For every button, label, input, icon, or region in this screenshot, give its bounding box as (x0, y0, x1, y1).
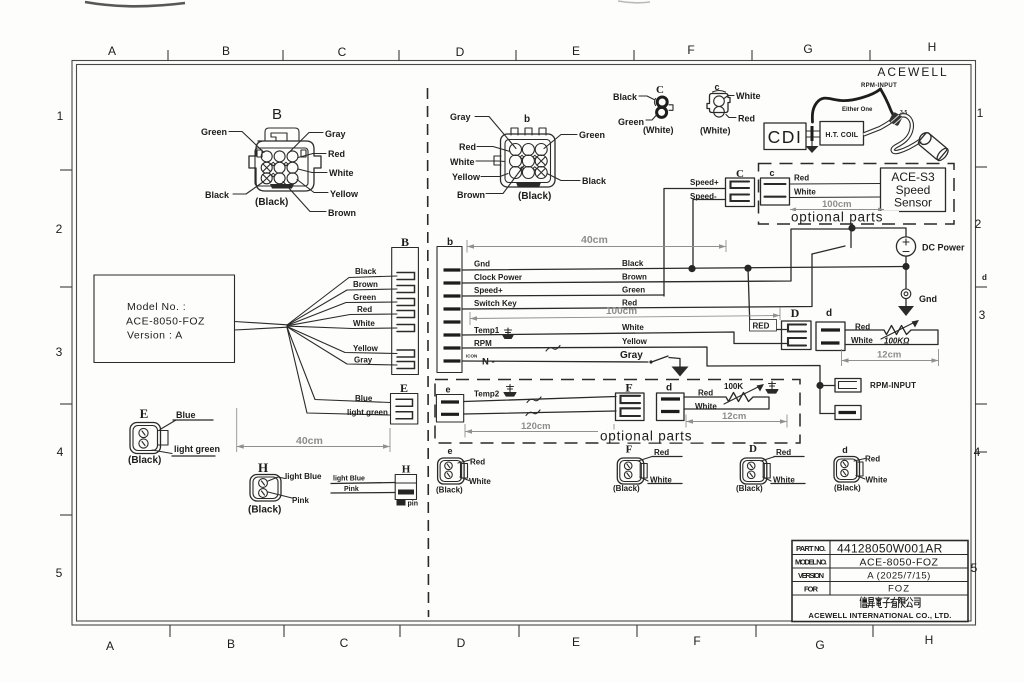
connector F (temp2 panel side) (616, 381, 645, 421)
dimension 40cm (top, harness) (467, 234, 726, 253)
svg-text:Green: Green (579, 130, 605, 140)
svg-text:Red: Red (865, 455, 880, 464)
svg-text:12cm: 12cm (722, 411, 746, 422)
svg-text:White: White (866, 476, 888, 485)
svg-text:White: White (469, 477, 491, 486)
temp1 sensor icon (503, 328, 513, 339)
d plug (Black) bottom row (834, 445, 888, 493)
dimension 100cm (sensor cable) (790, 199, 884, 212)
svg-text:100K: 100K (724, 382, 743, 391)
svg-text:Green: Green (353, 293, 376, 302)
company name CJK 億昇電子有限公司 (860, 597, 920, 608)
svg-text:Red: Red (654, 448, 669, 457)
svg-text:3: 3 (56, 345, 63, 359)
svg-text:ACEWELL INTERNATIONAL CO., LTD: ACEWELL INTERNATIONAL CO., LTD. (808, 611, 951, 620)
connector b (8-pin plug face, top-middle) (494, 114, 555, 188)
svg-text:Red: Red (776, 448, 791, 457)
svg-text:Green: Green (618, 117, 644, 127)
svg-text:MODEL NO.: MODEL NO. (795, 558, 827, 567)
svg-text:Gray: Gray (325, 129, 346, 139)
CDI unit (764, 123, 806, 150)
optional parts label (lower) (598, 429, 708, 444)
svg-text:2: 2 (975, 217, 982, 231)
optional parts box (temp2/oil) (435, 380, 800, 444)
svg-text:d: d (666, 383, 672, 394)
svg-text:E: E (140, 406, 149, 421)
svg-text:White: White (450, 157, 475, 167)
svg-text:Yellow: Yellow (452, 172, 481, 182)
svg-text:100KΩ: 100KΩ (884, 337, 910, 346)
H harness wires (331, 476, 395, 494)
F plug (Black) bottom row (613, 444, 682, 494)
svg-text:G: G (815, 638, 824, 652)
svg-text:E: E (400, 381, 408, 395)
svg-text:Gnd: Gnd (919, 294, 937, 304)
svg-text:Gray: Gray (620, 350, 643, 361)
wire Gnd/Black row (462, 259, 906, 270)
svg-text:40cm: 40cm (296, 435, 323, 447)
squiggle break on RPM wire (546, 346, 560, 352)
svg-text:Brown: Brown (328, 208, 356, 218)
svg-text:H.T. COIL: H.T. COIL (825, 132, 858, 139)
connector C (2-pin round plug, male) (613, 84, 674, 135)
svg-text:Black: Black (613, 92, 638, 102)
svg-text:(Black): (Black) (255, 197, 288, 208)
svg-text:4: 4 (974, 445, 981, 459)
svg-text:Gray: Gray (354, 356, 373, 365)
svg-text:d: d (826, 308, 832, 319)
svg-text:1: 1 (977, 106, 984, 120)
svg-text:B: B (222, 44, 230, 58)
connector b pin circles (510, 144, 548, 179)
svg-text:Red: Red (470, 458, 485, 467)
svg-text:ACEWELL: ACEWELL (877, 65, 948, 79)
RPM pickup wire (either-one branches) (812, 89, 907, 122)
svg-text:CDI: CDI (768, 127, 803, 147)
wire Speed+/Green row (462, 286, 664, 297)
ignition coil U: H.T. COIL (820, 122, 864, 146)
svg-text:D: D (749, 443, 757, 455)
connector b wire labels + leaders (450, 112, 607, 202)
dimension 100cm (main cable) (470, 306, 780, 325)
spark plug (917, 130, 950, 162)
svg-text:4: 4 (57, 445, 64, 459)
svg-text:ACE-S3: ACE-S3 (891, 170, 935, 184)
svg-text:E: E (572, 44, 580, 58)
svg-text:Pink: Pink (292, 496, 309, 505)
E plug wires Blue / light green (152, 410, 220, 456)
svg-text:light green: light green (174, 444, 220, 454)
svg-text:Temp1: Temp1 (474, 326, 500, 335)
wrap coil mark (3-5 turns) (889, 112, 903, 127)
svg-text:optional parts: optional parts (600, 429, 692, 444)
svg-text:F: F (693, 634, 700, 648)
svg-text:G: G (803, 42, 812, 56)
svg-text:Black: Black (582, 176, 607, 186)
svg-text:E: E (572, 635, 580, 649)
connector c (2-pin round plug, female) (700, 82, 761, 136)
temp2 label + oil icon (474, 385, 516, 399)
svg-text:Either One: Either One (842, 107, 873, 113)
svg-text:A (2025/7/15): A (2025/7/15) (867, 571, 931, 582)
ground (DC) (898, 299, 914, 316)
title block row MODEL NO (795, 557, 939, 569)
svg-text:(White): (White) (700, 126, 731, 136)
svg-text:White: White (736, 91, 761, 101)
svg-text:RPM: RPM (474, 339, 492, 348)
junction dot (switch to DC+) (848, 224, 855, 231)
svg-text:A: A (106, 639, 114, 653)
ground (CDI) (806, 141, 819, 153)
svg-text:Yellow: Yellow (622, 337, 648, 346)
connector strip B (392, 235, 419, 375)
svg-text:B: B (401, 235, 409, 249)
temp1 sender 100KΩ (845, 320, 938, 346)
spark plug wire (double line with wrap) (864, 115, 921, 152)
title block table (792, 541, 968, 622)
signal labels on strip b (474, 260, 522, 349)
svg-text:ACE-8050-FOZ: ACE-8050-FOZ (860, 557, 939, 569)
wire Switch Key/Red row (462, 254, 812, 309)
connector strip H (395, 464, 418, 508)
svg-text:light Blue: light Blue (285, 472, 322, 481)
svg-text:Pink: Pink (344, 486, 359, 493)
svg-text:2: 2 (56, 222, 63, 236)
svg-text:Gray: Gray (450, 112, 471, 122)
dimension 40cm (E cable) (237, 408, 390, 452)
svg-text:D: D (456, 45, 465, 59)
svg-text:Red: Red (794, 174, 809, 183)
svg-text:Red: Red (328, 149, 345, 159)
optional parts box (speed sensor) (759, 164, 955, 225)
DC power source (896, 237, 965, 256)
svg-text:C: C (338, 45, 347, 59)
junction dot (Speed- to Gnd) (688, 265, 695, 272)
svg-text:D: D (791, 306, 800, 320)
title block row PART NO (796, 542, 943, 556)
svg-text:H: H (928, 40, 937, 54)
fan-out wires to connector strip E (287, 327, 391, 415)
svg-text:Red: Red (459, 142, 476, 152)
svg-text:light Blue: light Blue (333, 476, 365, 483)
svg-text:F: F (626, 444, 633, 456)
connector B (8-pin plug face, top-left) (249, 106, 321, 191)
speed wires Speed+/Speed- (664, 178, 726, 296)
svg-text:Blue: Blue (176, 410, 196, 420)
squiggle break on temp2 B (526, 410, 540, 416)
svg-text:Switch Key: Switch Key (474, 299, 517, 308)
svg-text:Red: Red (698, 389, 713, 398)
svg-text:optional parts: optional parts (791, 210, 883, 225)
svg-text:RPM-INPUT: RPM-INPUT (861, 83, 897, 89)
svg-text:Black: Black (355, 267, 377, 276)
svg-text:3: 3 (979, 308, 986, 322)
svg-text:Yellow: Yellow (353, 344, 379, 353)
wire N-/Gray row (462, 350, 648, 362)
wire temp2 B (464, 411, 616, 414)
connector D (temp1 panel side) (782, 306, 812, 350)
svg-text:100cm: 100cm (606, 306, 637, 317)
junction dot (RPM input) (816, 382, 823, 389)
E plug (Black) bottom-left (128, 406, 168, 466)
connector d (temp1 sensor side) (816, 308, 845, 351)
svg-text:c: c (769, 168, 774, 178)
svg-text:FOZ: FOZ (888, 584, 910, 595)
wire DC minus to ground (905, 256, 907, 289)
svg-text:White: White (622, 323, 644, 332)
svg-text:Gnd: Gnd (474, 260, 490, 269)
connector c (speed, sensor side) (761, 168, 790, 205)
svg-text:RPM-INPUT: RPM-INPUT (870, 381, 916, 390)
svg-text:(Black): (Black) (436, 486, 463, 495)
svg-text:RED: RED (753, 322, 770, 331)
power switch (812, 228, 851, 254)
svg-text:Green: Green (201, 127, 227, 137)
svg-text:Black: Black (205, 190, 230, 200)
fan-out wires to connector strip B (287, 276, 397, 365)
svg-text:Temp2: Temp2 (474, 390, 500, 399)
svg-text:Red: Red (738, 114, 755, 124)
svg-text:5: 5 (971, 561, 978, 575)
wire to DC plus (853, 228, 907, 237)
H plug labels (268, 472, 322, 505)
svg-text:Speed+: Speed+ (690, 178, 719, 187)
svg-text:N -: N - (482, 357, 495, 368)
svg-text:Blue: Blue (355, 394, 373, 403)
connector strip b (437, 237, 462, 373)
svg-text:(Black): (Black) (248, 505, 281, 516)
svg-text:(Black): (Black) (736, 484, 763, 493)
svg-text:H: H (925, 633, 934, 647)
speed sensor ACE-S3 (881, 168, 946, 212)
svg-text:d: d (982, 273, 987, 282)
svg-text:Brown: Brown (622, 273, 647, 282)
svg-text:Version : A: Version : A (127, 330, 183, 342)
svg-text:Model No. :: Model No. : (127, 301, 186, 313)
connector C (speed, panel side) (726, 168, 755, 207)
title block row VERSION (798, 571, 931, 582)
svg-text:Speed+: Speed+ (474, 286, 503, 295)
svg-text:(White): (White) (643, 125, 674, 135)
svg-text:B: B (272, 106, 282, 123)
svg-text:(Black): (Black) (128, 455, 161, 466)
svg-text:120cm: 120cm (521, 421, 551, 432)
ground (neutral) (672, 367, 689, 377)
dimension 120cm (465, 421, 614, 438)
neutral switch (649, 356, 680, 367)
title block row FOR (804, 584, 910, 595)
svg-text:White: White (329, 168, 354, 178)
oil temp icon (temp2) (766, 382, 778, 394)
svg-text:5: 5 (56, 566, 63, 580)
svg-text:Black: Black (622, 259, 644, 268)
svg-text:e: e (445, 385, 450, 395)
svg-text:Brown: Brown (457, 190, 485, 200)
svg-text:ACE-8050-FOZ: ACE-8050-FOZ (126, 316, 205, 328)
optional parts label (upper) (789, 210, 899, 225)
RPM-INPUT connector 1 (820, 379, 916, 393)
strip B wire labels (353, 267, 379, 365)
svg-text:D: D (457, 636, 466, 650)
dimension 12cm (temp2) (686, 411, 787, 428)
svg-text:White: White (353, 319, 375, 328)
svg-text:Green: Green (622, 286, 645, 295)
connector B wire labels + leaders (201, 127, 359, 218)
D plug (Black) bottom row (736, 443, 805, 493)
svg-text:White: White (794, 188, 816, 197)
svg-text:White: White (851, 336, 873, 345)
svg-text:C: C (340, 636, 349, 650)
svg-text:(Black): (Black) (834, 484, 861, 493)
dimension 12cm (temp1 sender) (842, 349, 939, 366)
svg-text:F: F (687, 43, 694, 57)
wire CDI to HT coil + junction bar (806, 126, 820, 141)
connector d (temp2 sensor side) (657, 383, 685, 421)
svg-text:H: H (402, 464, 411, 476)
svg-text:Clock Power: Clock Power (474, 273, 522, 282)
svg-text:B: B (227, 637, 235, 651)
svg-text:b: b (524, 114, 530, 125)
wire Clock Power/Brown row (462, 229, 853, 283)
wire temp2 A (464, 397, 616, 402)
svg-text:(Black): (Black) (613, 484, 640, 493)
svg-text:Yellow: Yellow (330, 189, 359, 199)
connector strip e (436, 385, 463, 423)
svg-text:e: e (447, 446, 452, 456)
connector B pin circles (261, 151, 298, 184)
svg-text:1: 1 (57, 109, 64, 123)
squiggle break on temp2 A (527, 397, 541, 403)
svg-text:(Black): (Black) (518, 191, 551, 202)
svg-text:d: d (842, 445, 848, 455)
svg-text:Red: Red (357, 305, 372, 314)
svg-text:H: H (258, 460, 268, 475)
model info box (94, 275, 235, 363)
wire Temp1/White row (462, 323, 787, 344)
e plug (Black) bottom row (436, 446, 491, 495)
svg-text:light green: light green (347, 408, 388, 417)
temp2 sender 100K (684, 382, 769, 411)
svg-text:VERSION: VERSION (798, 571, 824, 580)
junction dot (RED takeoff) (744, 265, 751, 272)
separator dashed line (428, 88, 429, 617)
svg-text:ICON: ICON (466, 354, 477, 359)
svg-text:DC Power: DC Power (922, 243, 965, 253)
connector strip E (347, 381, 418, 424)
junction dot (DC minus) (902, 263, 909, 270)
svg-text:C: C (656, 84, 664, 96)
svg-text:40cm: 40cm (581, 234, 608, 246)
wire RED (gnd feed to D) (748, 268, 787, 331)
wire RPM/Yellow row (462, 337, 820, 414)
svg-text:100cm: 100cm (822, 199, 852, 210)
svg-text:12cm: 12cm (877, 350, 901, 361)
svg-text:Brown: Brown (353, 280, 378, 289)
svg-text:44128050W001AR: 44128050W001AR (837, 542, 943, 556)
ground ring (chassis Gnd) (901, 289, 937, 304)
cable bundle from model box (235, 322, 288, 331)
svg-text:A: A (108, 44, 116, 58)
RPM-INPUT connector 2 (820, 406, 861, 420)
svg-text:Sensor: Sensor (894, 196, 932, 210)
svg-text:pin: pin (408, 501, 419, 508)
H plug (Black) (248, 460, 281, 516)
svg-text:PART NO.: PART NO. (796, 544, 826, 553)
svg-text:FOR: FOR (804, 585, 819, 594)
